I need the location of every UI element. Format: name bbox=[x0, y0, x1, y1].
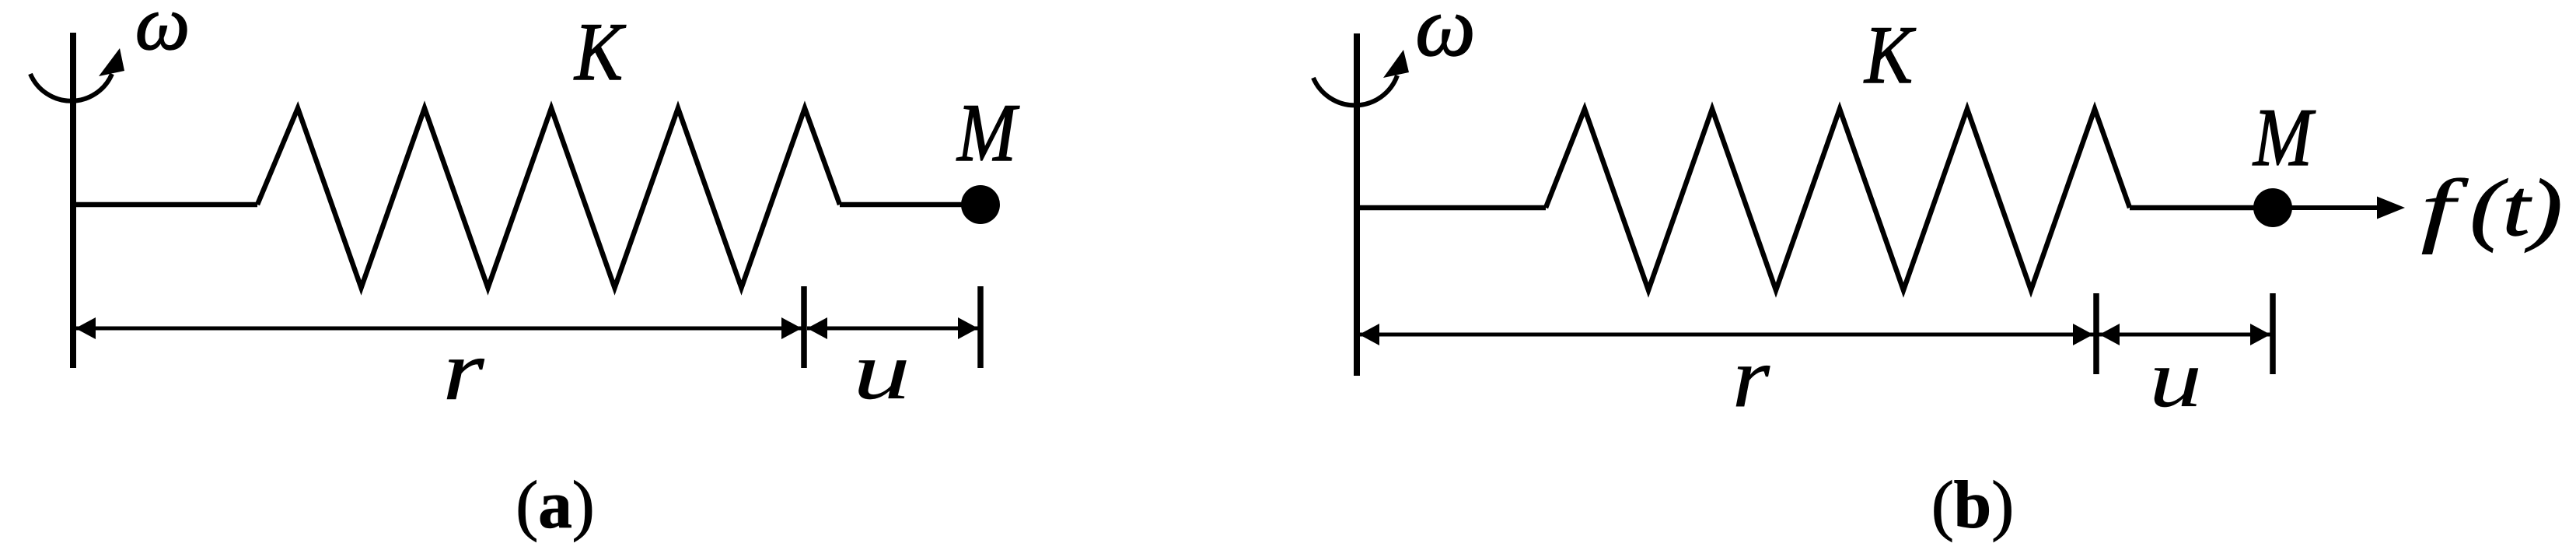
svg-text:u: u bbox=[2149, 333, 2202, 424]
svg-text:(t): (t) bbox=[2470, 163, 2563, 252]
svg-text:f: f bbox=[2420, 163, 2469, 254]
svg-text:M: M bbox=[2252, 92, 2316, 183]
svg-text:r: r bbox=[1732, 330, 1770, 425]
svg-text:ω: ω bbox=[1415, 0, 1476, 74]
svg-text:ω: ω bbox=[135, 0, 190, 66]
svg-text:u: u bbox=[853, 325, 911, 416]
svg-text:K: K bbox=[1863, 9, 1916, 100]
svg-text:M: M bbox=[956, 87, 1020, 178]
svg-text:(a): (a) bbox=[516, 467, 594, 542]
svg-text:r: r bbox=[443, 323, 485, 418]
svg-text:(b): (b) bbox=[1931, 467, 2014, 542]
svg-text:K: K bbox=[573, 6, 626, 97]
